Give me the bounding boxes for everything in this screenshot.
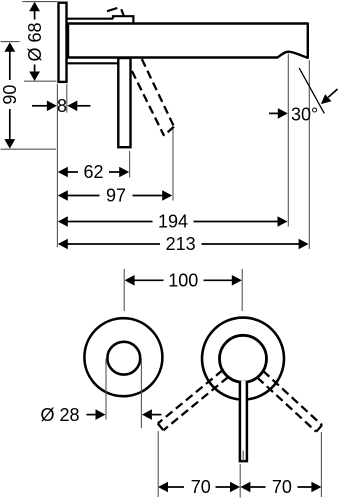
dim 8 left arrow <box>32 105 47 107</box>
svg-text:62: 62 <box>83 162 103 182</box>
dim 97 line <box>67 195 163 197</box>
dim 194 arrows <box>58 216 68 227</box>
svg-text:Ø 28: Ø 28 <box>40 405 79 425</box>
dim 90 arrow up <box>4 42 15 52</box>
lever tip seam <box>242 451 244 462</box>
dim 70 right arrows <box>240 482 250 493</box>
lever handle (side view) <box>118 58 130 147</box>
dim 62 extension right <box>129 151 131 178</box>
dim Ø28 extension right <box>140 359 142 429</box>
dim 90 line <box>9 51 11 140</box>
lever pivot tab (top) <box>113 16 133 23</box>
handle hub (front view) <box>220 335 267 382</box>
handle swung dashed left (front view) <box>158 370 228 430</box>
dim 90 extension bottom <box>1 148 57 150</box>
dim 100 line <box>134 279 232 281</box>
wall plate (escutcheon, side view) <box>59 3 67 82</box>
svg-text:8: 8 <box>57 96 67 116</box>
dim Ø28 extension left <box>105 359 107 420</box>
dim 213 extension right (spout end) <box>308 60 310 249</box>
dim 194 extension right (aerator) <box>287 54 289 227</box>
dim 194 line <box>67 221 278 223</box>
svg-text:100: 100 <box>168 271 198 291</box>
dim Ø68 extension bottom <box>24 80 57 82</box>
dim Ø28 left arrow <box>87 414 97 416</box>
dim 70 left line <box>167 486 230 488</box>
svg-text:30°: 30° <box>291 105 318 125</box>
svg-text:213: 213 <box>166 234 196 254</box>
svg-text:Ø 68: Ø 68 <box>25 22 45 61</box>
dim 97 arrows <box>58 190 68 201</box>
dim Ø68 arrow down <box>29 72 40 82</box>
dim 70 extension centre <box>239 464 241 498</box>
dim 90 extension top <box>1 41 20 43</box>
dim 97 extension right (swung lever tip) <box>172 129 174 201</box>
dim 70 left arrows <box>158 482 168 493</box>
body sleeve top edge <box>67 18 113 20</box>
lever tab tilted dashes <box>107 8 124 16</box>
svg-text:97: 97 <box>106 186 126 206</box>
dim 62 line <box>67 171 120 173</box>
dim 213 line <box>67 243 299 245</box>
extension line wall face (left reference) <box>56 84 58 247</box>
dim 70 right line <box>250 486 311 488</box>
svg-text:70: 70 <box>272 477 292 497</box>
spout (side view) <box>68 24 308 58</box>
body sleeve bottom edge <box>67 62 119 64</box>
dim 70 extension right (swung tip) <box>320 432 322 497</box>
dim Ø68 arrow up <box>29 2 40 12</box>
svg-text:70: 70 <box>191 477 211 497</box>
svg-text:194: 194 <box>158 212 188 232</box>
handle swung dashed right (front view) <box>257 371 322 432</box>
handle escutcheon (front view) <box>202 318 284 400</box>
dim 8 right arrow <box>77 105 90 107</box>
svg-text:90: 90 <box>0 85 20 105</box>
30 degree diagonal arrow <box>328 89 337 97</box>
dim 8 extension right <box>66 84 68 113</box>
dim 70 extension left (swung tip) <box>157 431 159 497</box>
lever swung dashed outline (side view) <box>132 59 174 136</box>
dim 90 arrow down <box>4 139 15 149</box>
dim 100 tick right <box>241 269 243 311</box>
dim 213 arrows <box>58 239 68 250</box>
handle lever (front view) <box>240 381 247 461</box>
dim Ø68 extension top <box>22 1 57 3</box>
dim Ø68 line <box>34 10 36 73</box>
dim 62 arrows <box>58 167 68 178</box>
30 degree horizontal arrow <box>269 112 279 114</box>
dim 100 tick left <box>123 269 125 311</box>
spout escutcheon (front view) <box>84 318 162 396</box>
dim Ø28 right arrow <box>152 414 162 416</box>
30 degree reference line <box>299 68 324 113</box>
spout outlet (front view) <box>107 342 140 375</box>
dim 100 arrows <box>125 275 135 286</box>
